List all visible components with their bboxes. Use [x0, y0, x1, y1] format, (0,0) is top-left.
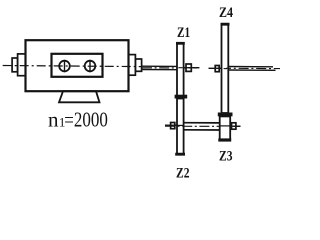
shaft III left bearing block — [215, 66, 219, 72]
shaft I lower line — [142, 69, 177, 71]
motor right shaft step large — [129, 55, 136, 76]
gear Z2 bottom rim (thick cap) — [175, 153, 185, 156]
gear Z2 rectangle — [177, 99, 184, 155]
motor left shaft step large — [18, 54, 26, 76]
shaft II centerline (dash-dot) — [165, 125, 241, 127]
shaft II upper line — [184, 122, 220, 124]
shaft I upper line — [142, 65, 177, 67]
gear Z1 rectangle — [177, 43, 184, 96]
shaft III left journal line — [209, 67, 222, 69]
shaft III centerline (dash-dot) — [226, 67, 280, 69]
bolt circle right vertical crosshair — [89, 60, 91, 72]
shaft II lower line — [184, 129, 220, 131]
shaft III lower line — [229, 69, 276, 71]
gear Z1 top rim (thick cap) — [176, 42, 185, 45]
svg-text:n: n — [48, 107, 59, 131]
centerline through gear Z2 — [177, 124, 184, 126]
shaft I end journal line — [184, 67, 200, 69]
gear Z3 rectangle — [220, 116, 231, 139]
motor centerline (dash-dot) — [3, 66, 142, 67]
svg-text:=2000: =2000 — [64, 107, 108, 131]
svg-text:Z2: Z2 — [176, 166, 190, 182]
svg-text:Z1: Z1 — [177, 25, 190, 41]
shaft II left journal line — [165, 124, 177, 126]
gear Z3 bottom rim (thick cap) — [218, 138, 231, 141]
bolt circle right — [85, 61, 96, 72]
motor right shaft step small — [135, 59, 141, 71]
motor left shaft step small — [12, 58, 18, 72]
shaft I right bearing block — [186, 64, 191, 71]
motor M1 body — [26, 40, 129, 91]
bolt circle left — [59, 61, 70, 72]
centerline dash inside gear Z1 — [178, 67, 182, 69]
shaft II right journal line — [230, 125, 241, 127]
motor mounting base (trapezoid) — [59, 91, 100, 102]
centerline through gear Z3 — [220, 125, 231, 127]
mesh line Z3/Z4 (thick band) — [218, 113, 233, 117]
shaft II right bearing block — [232, 123, 236, 129]
centerline dash inside gear Z4 — [224, 68, 227, 70]
gear Z4 top rim (thick cap) — [221, 23, 230, 26]
svg-text:Z3: Z3 — [219, 149, 233, 165]
shaft I centerline (dash-dot) — [142, 67, 198, 69]
shaft II left bearing block — [171, 123, 175, 129]
motor terminal box (inner rectangle) — [52, 54, 103, 77]
mesh line Z1/Z2 (thick band) — [175, 95, 188, 99]
bolt circle left vertical crosshair — [64, 60, 66, 72]
svg-text:Z4: Z4 — [219, 5, 233, 21]
gear Z4 rectangle — [222, 24, 229, 113]
shaft III upper line — [229, 66, 274, 68]
